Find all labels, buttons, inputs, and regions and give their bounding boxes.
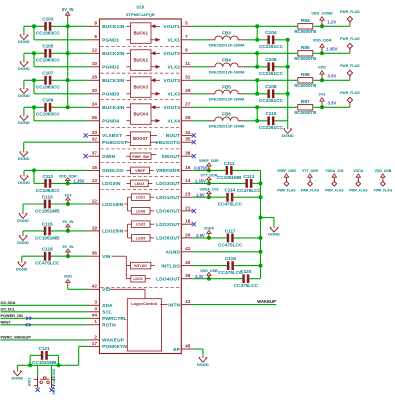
power label VREF_DDR with PWR_FLAG (277, 169, 296, 192)
wire DGND branch LDO rail (261, 217, 275, 219)
bus entry chevrons NRST (26, 323, 28, 326)
power 5V_IN arrow VIN (62, 244, 73, 256)
svg-text:VDD: VDD (318, 65, 326, 70)
svg-text:13: 13 (92, 178, 98, 183)
power VREF_DDR arrow (199, 159, 219, 170)
svg-text:27: 27 (185, 102, 191, 107)
svg-text:3V3: 3V3 (319, 92, 327, 97)
junction 5V_IN rail row 2 (66, 51, 70, 55)
svg-text:45: 45 (185, 343, 191, 348)
op-amp U10 STPMIC1APQR IC body (100, 19, 182, 354)
capacitor C108 (259, 84, 284, 103)
wire VLX1 net (192, 39, 208, 41)
svg-text:C113: C113 (243, 174, 254, 179)
pin 21 LDO6OUT (right) (156, 205, 192, 214)
wire buck output cap ground rail (287, 40, 289, 127)
inductor FB3 (208, 31, 245, 48)
junction BUCK2 cap/ground (32, 51, 36, 55)
capacitor C107 (36, 71, 61, 90)
svg-text:VREFDDR: VREFDDR (156, 168, 181, 174)
svg-text:5V_IN: 5V_IN (62, 7, 74, 12)
svg-text:DGND: DGND (18, 39, 30, 44)
svg-text:C108: C108 (265, 84, 277, 89)
svg-text:R84: R84 (301, 18, 310, 24)
svg-text:CC1051MB: CC1051MB (35, 208, 60, 213)
pin 39 LDO4OUT (right) (156, 273, 192, 282)
svg-text:FB5: FB5 (222, 85, 231, 90)
power label VTT_DDR with PWR_FLAG (301, 169, 320, 192)
wire VLX2 net (192, 66, 208, 68)
capacitor C106 (259, 57, 284, 76)
svg-text:U10: U10 (136, 5, 144, 10)
svg-text:LDO3OUT: LDO3OUT (156, 181, 180, 187)
wire INTN net with WAKEUP label (192, 304, 276, 306)
internal block BUCK3 (130, 77, 151, 98)
svg-text:PWR_FLAG: PWR_FLAG (277, 188, 296, 192)
capacitor C115 (35, 194, 60, 213)
no-connect SW1 pin A (36, 388, 40, 392)
svg-text:BOUT: BOUT (166, 133, 180, 139)
capacitor C119 (218, 256, 243, 275)
svg-text:34: 34 (185, 130, 191, 135)
wire PGBOOST net (24, 141, 89, 143)
svg-text:23: 23 (185, 192, 191, 197)
internal block INTLDO (130, 262, 150, 269)
capacitor C117 (218, 228, 243, 247)
capacitor C105 (36, 44, 61, 63)
junction VDD (320, 78, 324, 82)
wire VOUT1 net (192, 25, 297, 27)
pin 22 LDO16IN (left) (89, 198, 124, 207)
svg-text:VREF: VREF (135, 169, 146, 173)
svg-text:CC475LCC: CC475LCC (218, 202, 243, 207)
svg-text:PWR_FLAG: PWR_FLAG (340, 37, 360, 41)
resistor R85 (294, 45, 316, 61)
svg-text:PWR_FLAG: PWR_FLAG (340, 10, 360, 14)
pin 3 SDA (left) (89, 300, 114, 309)
svg-text:BOOST: BOOST (133, 136, 148, 141)
svg-text:7: 7 (185, 34, 188, 39)
wire VDDA net (192, 237, 227, 239)
svg-text:16: 16 (185, 165, 191, 170)
svg-text:C112: C112 (42, 174, 53, 179)
svg-text:PWR_FLAG: PWR_FLAG (340, 91, 360, 95)
svg-text:LDO4OUT: LDO4OUT (156, 277, 180, 283)
junction 5V_IN rail row 3 (66, 78, 70, 82)
svg-text:PGND4: PGND4 (102, 119, 119, 125)
svg-text:VLX4: VLX4 (167, 119, 180, 125)
svg-text:DGND: DGND (18, 66, 30, 71)
svg-text:5: 5 (185, 21, 188, 26)
internal block LDO6 (131, 208, 150, 215)
svg-text:I2C.SDA: I2C.SDA (1, 301, 16, 305)
svg-text:36: 36 (92, 251, 98, 256)
svg-text:24: 24 (92, 102, 98, 107)
svg-text:VDDA_1V8: VDDA_1V8 (199, 188, 218, 192)
svg-text:11: 11 (185, 61, 190, 66)
svg-text:CC1031MB: CC1031MB (32, 360, 57, 365)
ground DGND C115 (17, 212, 29, 223)
svg-text:LDO25IN: LDO25IN (102, 229, 124, 235)
capacitor C104 (259, 30, 284, 49)
svg-text:31: 31 (185, 75, 191, 80)
wire PONKEYN net (79, 345, 89, 347)
svg-text:DGND: DGND (17, 240, 29, 245)
pin 30 PGND3 (left) (89, 88, 120, 97)
ground DGND buck caps (282, 127, 294, 138)
power flag PWR_FLAG row 2 (340, 37, 360, 53)
svg-text:3V3: 3V3 (64, 192, 72, 197)
wire to DGND gndldo (23, 170, 25, 174)
svg-text:CC1063CC: CC1063CC (36, 58, 61, 63)
svg-text:CC2261CC: CC2261CC (259, 98, 284, 103)
svg-text:CC1063CC: CC1063CC (36, 31, 61, 36)
svg-text:DFE252012F-1R0M: DFE252012F-1R0M (209, 42, 245, 47)
internal block BUCK1 (130, 23, 151, 44)
capacitor C109 (36, 98, 61, 117)
svg-text:RSTN: RSTN (102, 323, 116, 329)
pin 44 PWRCTRL (left) (89, 313, 128, 322)
svg-text:C109: C109 (42, 98, 54, 103)
internal block LDO3 (131, 180, 149, 187)
svg-text:RC0000TB: RC0000TB (294, 56, 316, 61)
svg-text:DGND: DGND (16, 266, 28, 271)
svg-text:35: 35 (185, 137, 191, 142)
svg-text:WAKEUP: WAKEUP (257, 299, 276, 304)
wire PGND4 to cap junction (33, 107, 35, 121)
wire PGND3 to cap junction (33, 80, 35, 94)
power 5V_IN rail vertical (67, 18, 69, 108)
svg-text:VLX2: VLX2 (167, 65, 180, 71)
svg-text:C111: C111 (224, 161, 235, 166)
svg-text:C119: C119 (225, 256, 236, 261)
svg-text:44: 44 (92, 313, 98, 318)
wire VOUT3 to filter cap (256, 80, 258, 94)
wire / label PWRC_WAKEUP (1, 336, 89, 340)
wire GNDLDO net (24, 169, 89, 171)
svg-text:32: 32 (92, 137, 98, 142)
bus entry chevrons POWER_ON (26, 317, 28, 320)
svg-text:33: 33 (92, 130, 98, 135)
pin 13 LDO3IN (left) (89, 178, 121, 187)
svg-text:1.35V: 1.35V (195, 179, 206, 184)
svg-text:C103: C103 (42, 17, 54, 22)
svg-text:BUCK3IN: BUCK3IN (102, 78, 125, 84)
internal block BOOST (130, 132, 150, 146)
inductor FB6 (208, 112, 245, 129)
pin 27 VOUT4 (right) (163, 102, 192, 111)
svg-text:14: 14 (185, 178, 191, 183)
power label VDDA_1V8 with PWR_FLAG (325, 169, 344, 192)
junction VDD_DDR / LDO3IN (66, 181, 70, 185)
svg-text:BUCK3: BUCK3 (133, 85, 148, 90)
svg-text:3.3V: 3.3V (327, 74, 336, 79)
wire LDO cap common rail (260, 170, 262, 278)
power VDDA_1V8 arrow (199, 188, 218, 198)
svg-text:10: 10 (92, 61, 98, 66)
VIO branch graphic (111, 289, 146, 298)
pin 15 GNDLDO (left) (89, 165, 124, 174)
svg-text:C110: C110 (265, 111, 276, 116)
svg-text:VLX3: VLX3 (167, 92, 180, 98)
svg-text:R85: R85 (301, 45, 310, 51)
ground DGND row 4 (18, 114, 30, 125)
svg-text:28: 28 (92, 75, 98, 80)
pin 34 BOUT (right) (166, 130, 192, 139)
wire VLX4 net (192, 120, 208, 122)
wire VOUT3 net (192, 79, 297, 81)
svg-text:C116: C116 (42, 221, 53, 226)
pin 24 BUCK4IN (left) (89, 102, 125, 111)
switch SW1 SKRPACE010 (34, 365, 55, 388)
svg-text:22: 22 (92, 198, 98, 203)
svg-text:BUCK1: BUCK1 (133, 31, 148, 36)
pin 19 LDO25IN (left) (89, 225, 124, 234)
power 5V_IN top arrow (62, 7, 74, 17)
wire LDO25IN net (23, 230, 44, 232)
junction 5V_IN / VIN (66, 254, 70, 258)
power 5V_IN arrow mid (62, 219, 73, 231)
power VDDA arrow (204, 227, 215, 238)
power VDD arrow (318, 65, 326, 81)
svg-text:C118: C118 (42, 247, 53, 252)
svg-text:DGND: DGND (18, 180, 30, 185)
svg-text:BUCK4: BUCK4 (133, 112, 148, 117)
svg-text:VREF_DDR: VREF_DDR (277, 169, 296, 173)
pin 16 VREFDDR (right) (156, 165, 192, 174)
svg-text:1: 1 (94, 319, 97, 324)
wire INTLDO net (192, 265, 227, 267)
svg-text:VOUT4: VOUT4 (163, 105, 180, 111)
internal block LDO5 (131, 235, 150, 242)
svg-text:41: 41 (185, 246, 191, 251)
svg-text:VDD: VDD (64, 274, 73, 279)
svg-text:12: 12 (92, 48, 98, 53)
ground DGND PONKEYN (12, 370, 24, 381)
svg-text:8: 8 (94, 21, 97, 26)
internal block LDO2 (131, 221, 150, 228)
junction BUCK4 cap/ground (32, 105, 36, 109)
wire BUCK2 input net (24, 52, 45, 54)
pin 35 VBUSOTG (right) (155, 137, 192, 146)
pin 9 VOUT2 (right) (163, 48, 192, 57)
inductor FB4 (208, 58, 245, 75)
pin 5 VOUT1 (right) (163, 21, 192, 30)
inductor FB5 (208, 85, 245, 102)
svg-text:LDO16IN: LDO16IN (102, 202, 124, 208)
wire VREF_DDR net (192, 169, 226, 171)
svg-text:2.9V: 2.9V (196, 233, 205, 238)
svg-text:C104: C104 (265, 30, 277, 35)
svg-text:17: 17 (92, 341, 98, 346)
ground DGND row 1 (18, 33, 30, 44)
svg-text:C120: C120 (240, 269, 252, 274)
svg-text:PWRCTRL: PWRCTRL (102, 316, 127, 322)
junction 5V_IN rail row 4 (66, 105, 70, 109)
capacitor C121 (32, 346, 57, 365)
wire LDO3IN net (34, 182, 45, 184)
svg-text:DGND: DGND (18, 120, 30, 125)
wire / label I2C.SDA (1, 301, 89, 305)
svg-text:CC475LCC: CC475LCC (234, 283, 259, 288)
pin 17 PONKEYN (left) (89, 341, 128, 350)
svg-text:DFE252012F-1R0M: DFE252012F-1R0M (209, 96, 245, 101)
svg-text:PWR_FLAG: PWR_FLAG (325, 188, 344, 192)
svg-text:DFE252012F-1R0M: DFE252012F-1R0M (209, 69, 245, 74)
svg-text:VOUT1: VOUT1 (163, 24, 180, 30)
svg-text:VLX1: VLX1 (167, 38, 180, 44)
svg-text:DGND: DGND (197, 362, 209, 367)
svg-text:38: 38 (185, 151, 191, 156)
junction VDD_CORE (320, 24, 324, 28)
power VDD_USB arrow (200, 269, 218, 279)
resistor R84 (294, 18, 316, 34)
svg-text:VOUT3: VOUT3 (163, 78, 180, 84)
wire VOUT2 to filter cap (256, 53, 258, 67)
svg-text:CC475LCC: CC475LCC (237, 188, 262, 193)
capacitor C110 (259, 111, 284, 130)
pin 41 AGND (right) (165, 246, 192, 255)
resistor R86 (294, 72, 316, 88)
pin 4 SCL (left) (89, 306, 113, 315)
ground DGND EP (197, 356, 209, 367)
svg-text:VDDA: VDDA (353, 169, 363, 173)
pin 36 VIN (left) (89, 251, 111, 260)
no-connect pin 21 (192, 209, 196, 213)
svg-text:VREF_DDR: VREF_DDR (199, 159, 219, 163)
internal block Logic/Control (127, 299, 161, 351)
svg-text:VDD_USB: VDD_USB (200, 269, 218, 273)
wire VOUT4 to filter cap (256, 107, 258, 121)
junction BUCK1 cap/ground (32, 24, 36, 28)
svg-text:BUCK2IN: BUCK2IN (102, 51, 125, 57)
svg-text:INTLDO: INTLDO (161, 263, 180, 269)
resistor R87 (294, 99, 316, 115)
svg-text:CC475LCC: CC475LCC (35, 261, 60, 266)
power label VDD_USB with PWR_FLAG (374, 169, 393, 192)
wire / label NRST (1, 321, 89, 325)
internal block PWR_SW (130, 153, 151, 160)
pin 37 SWIN (left) (89, 151, 116, 160)
svg-text:1.8V: 1.8V (196, 192, 205, 197)
svg-text:PGND2: PGND2 (102, 65, 119, 71)
svg-text:1.2V: 1.2V (327, 20, 336, 25)
wire / label POWER_ON (1, 314, 89, 318)
svg-text:FB4: FB4 (222, 58, 231, 63)
svg-text:RC0000TB: RC0000TB (294, 29, 316, 34)
pin 12 BUCK2IN (left) (89, 48, 125, 57)
pin 42 VIO (left) (89, 284, 111, 293)
wire VIN net (22, 255, 44, 257)
svg-text:PWR_SW: PWR_SW (132, 155, 149, 159)
svg-text:LDO3: LDO3 (134, 182, 144, 186)
pin 29 VLX3 (right) (167, 88, 192, 97)
svg-text:DGND: DGND (268, 232, 280, 237)
pin 1 RSTN (left) (89, 319, 117, 328)
power 3V3 arrow (319, 92, 327, 108)
svg-text:VOUT2: VOUT2 (163, 51, 180, 57)
internal block BUCK4 (130, 104, 151, 125)
power VDD_CORE arrow (311, 11, 333, 27)
svg-text:SW1: SW1 (27, 377, 32, 386)
svg-text:21: 21 (185, 205, 191, 210)
ground DGND LDO caps (268, 226, 280, 237)
svg-text:CC2261CC: CC2261CC (259, 71, 284, 76)
pin 8 BUCK1IN (left) (89, 21, 125, 30)
capacitor C116 (35, 221, 60, 240)
wire VTT_DDR net (192, 182, 245, 184)
svg-text:15: 15 (92, 165, 98, 170)
pin 10 PGND2 (left) (89, 61, 120, 70)
svg-text:LDO6: LDO6 (136, 209, 145, 213)
svg-text:PWR_FLAG: PWR_FLAG (301, 188, 320, 192)
power VDD arrow (64, 274, 73, 287)
pin 23 LDO1OUT (right) (156, 192, 192, 201)
wire VDDA_1V8 net (192, 196, 226, 198)
wire VLX3 net (192, 93, 208, 95)
svg-text:40: 40 (185, 260, 191, 265)
svg-text:WAKEUP: WAKEUP (102, 338, 125, 344)
power flag PWR_FLAG row 4 (340, 91, 360, 107)
svg-text:PWR_FLAG: PWR_FLAG (349, 188, 368, 192)
svg-text:VBUSOTG: VBUSOTG (155, 140, 180, 146)
pin 38 SWOUT (right) (161, 151, 192, 160)
power flag PWR_FLAG row 1 (340, 10, 360, 26)
svg-text:PGND1: PGND1 (102, 38, 119, 44)
svg-text:AGND: AGND (165, 250, 180, 256)
svg-text:VTT_DDR: VTT_DDR (302, 169, 319, 173)
svg-text:PWR_FLAG: PWR_FLAG (340, 64, 360, 68)
capacitor C120 (234, 269, 259, 288)
svg-text:VDD_CORE: VDD_CORE (311, 11, 333, 16)
ground DGND C116 (17, 234, 29, 245)
svg-text:CC1051MB: CC1051MB (35, 235, 60, 240)
svg-text:3.3V: 3.3V (195, 274, 204, 279)
svg-text:C121: C121 (39, 346, 51, 351)
svg-text:RC0000TB: RC0000TB (294, 110, 316, 115)
pin 31 VOUT3 (right) (163, 75, 192, 84)
pin 18 LDO2OUT (right) (156, 219, 192, 228)
wire VIO net (68, 288, 89, 290)
svg-text:37: 37 (92, 151, 98, 156)
svg-text:29: 29 (185, 88, 191, 93)
junction 5V_IN rail row 1 (66, 24, 70, 28)
svg-text:C106: C106 (265, 57, 277, 62)
power VDD_DDR arrow (59, 175, 78, 184)
wire EP net (192, 348, 203, 350)
svg-text:SWOUT: SWOUT (161, 154, 180, 160)
no-connect pin 34 (192, 133, 196, 137)
svg-text:PWR_FLAG: PWR_FLAG (374, 188, 393, 192)
wire to DGND row 3 (23, 80, 25, 87)
svg-text:CC475LCC: CC475LCC (218, 242, 243, 247)
LDO25IN branch graphics (125, 224, 132, 238)
svg-text:R86: R86 (301, 72, 310, 78)
svg-text:3: 3 (94, 300, 97, 305)
wire PGND2 to cap junction (33, 53, 35, 67)
ground DGND GNDLDO (18, 174, 30, 185)
svg-text:C105: C105 (42, 44, 54, 49)
svg-text:VDDA_1V8: VDDA_1V8 (325, 169, 343, 173)
no-connect SW1 pin B (49, 388, 53, 392)
svg-text:STPMIC1APQR: STPMIC1APQR (126, 12, 155, 17)
pin 26 PGND4 (left) (89, 115, 120, 124)
svg-text:18: 18 (185, 219, 191, 224)
wire LDO16IN net (23, 203, 44, 205)
svg-text:3.3V: 3.3V (327, 101, 336, 106)
svg-text:PONKEYN: PONKEYN (102, 344, 127, 350)
svg-text:CC1063CC: CC1063CC (36, 112, 61, 117)
